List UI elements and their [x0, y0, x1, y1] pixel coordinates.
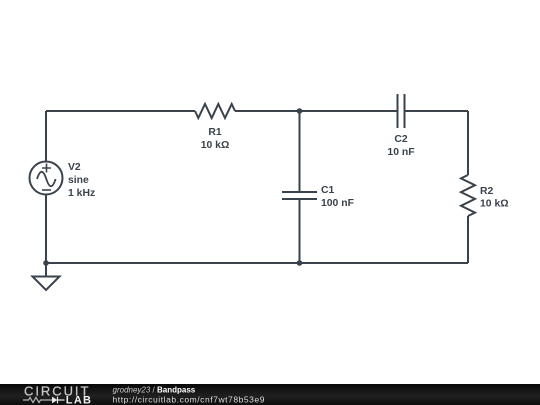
svg-text:10 kΩ: 10 kΩ [480, 199, 509, 210]
svg-text:R1: R1 [208, 127, 222, 138]
label R1 [201, 127, 230, 151]
svg-text:V2: V2 [68, 162, 81, 173]
svg-text:R2: R2 [480, 186, 494, 197]
wire C2 to top-right corner [405, 110, 469, 112]
node junction top (C1/R1) [297, 108, 303, 114]
svg-text:100 nF: 100 nF [321, 198, 354, 209]
CircuitLab logo [23, 384, 92, 405]
resistor R2 [461, 175, 475, 216]
svg-text:sine: sine [68, 175, 89, 186]
footer title text [113, 386, 196, 395]
capacitor C2 [398, 94, 405, 128]
wire C1 branch upper [299, 111, 301, 192]
capacitor C1 [282, 192, 317, 199]
wire C1 branch lower [299, 199, 301, 263]
svg-text:1 kHz: 1 kHz [68, 188, 95, 199]
node junction ground [43, 260, 49, 266]
label V2 [68, 162, 95, 199]
label C1 [321, 185, 354, 209]
svg-text:http://circuitlab.com/cnf7wt78: http://circuitlab.com/cnf7wt78b53e9 [113, 395, 266, 405]
wire bottom [46, 262, 468, 264]
svg-text:C2: C2 [394, 134, 408, 145]
node junction bottom (C1) [297, 260, 303, 266]
wire right side down to R2 [467, 111, 469, 175]
wire V2 to bottom-left [45, 195, 47, 264]
ground [33, 263, 60, 290]
wire R2 to bottom-right corner [467, 216, 469, 263]
resistor R1 [195, 104, 235, 118]
svg-text:LAB: LAB [66, 394, 93, 405]
wire left top segment [45, 111, 47, 162]
wire R1 to C2 (through node) [235, 110, 398, 112]
source V2 [30, 162, 63, 195]
wire top-left to R1 [46, 110, 195, 112]
svg-text:10 kΩ: 10 kΩ [201, 140, 230, 151]
label C2 [387, 134, 414, 158]
svg-text:grodney23 / Bandpass: grodney23 / Bandpass [113, 386, 196, 395]
footer url text [113, 395, 266, 405]
footer bar [0, 384, 540, 405]
label R2 [480, 186, 509, 210]
svg-text:C1: C1 [321, 185, 335, 196]
svg-text:10 nF: 10 nF [387, 147, 414, 158]
